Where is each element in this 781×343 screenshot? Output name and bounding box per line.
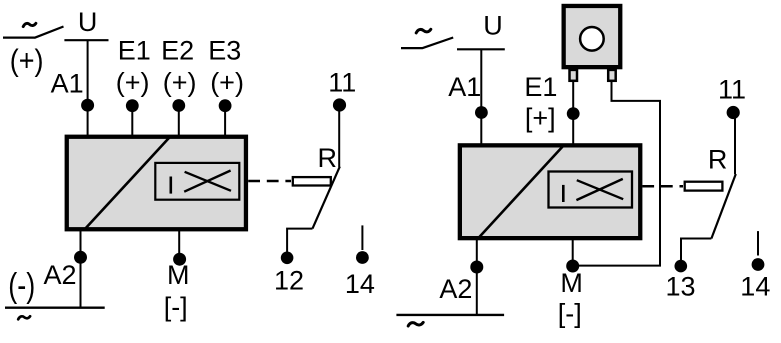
node 14 left	[356, 251, 369, 264]
U supply bar right	[457, 48, 505, 50]
wire U to A1 right	[480, 49, 482, 148]
node E2 left	[172, 99, 185, 112]
svg-text:11: 11	[328, 67, 356, 97]
dashed actuator link left	[248, 180, 291, 183]
AC tilde under rail right	[408, 322, 423, 326]
svg-text:A2: A2	[439, 274, 472, 304]
switch S1 left (blade)	[3, 27, 64, 38]
svg-text:U: U	[78, 7, 98, 37]
svg-text:E3: E3	[208, 36, 241, 66]
wire sensor pin to E1	[572, 82, 574, 148]
contact blade right	[711, 174, 735, 239]
node A1 right	[475, 106, 488, 119]
node E1 left	[126, 99, 139, 112]
svg-text:13: 13	[666, 271, 696, 301]
svg-text:(-): (-)	[8, 266, 35, 305]
svg-text:U: U	[483, 10, 503, 40]
AC tilde under rail left	[18, 316, 30, 319]
dashed actuator link right	[642, 185, 683, 188]
wire E1 to box	[131, 106, 133, 137]
neutral rail left	[5, 307, 105, 309]
diagonal separator right box	[478, 145, 564, 238]
node A2 right	[470, 261, 483, 274]
output stage box left (inner)	[155, 163, 239, 200]
wire E2 to box	[178, 106, 180, 138]
node M right	[566, 260, 579, 273]
svg-text:(+): (+)	[210, 68, 244, 98]
svg-text:A1: A1	[51, 69, 84, 99]
node A1 left	[81, 99, 94, 112]
U supply bar left	[64, 39, 108, 41]
relay module K1 (right box)	[460, 145, 640, 238]
svg-text:[-]: [-]	[164, 292, 188, 322]
AC source tilde symbol left	[23, 23, 36, 26]
wire 11 to pivot left	[338, 105, 340, 167]
relay coil R (resistor body) left	[293, 177, 331, 185]
wire blade to 13 right	[681, 239, 711, 261]
node E1 right	[567, 107, 580, 120]
contact blade left	[313, 167, 340, 229]
output stage box right (inner)	[549, 172, 633, 208]
stub wire 14 right	[757, 231, 759, 255]
svg-text:A1: A1	[448, 72, 481, 102]
svg-text:E1: E1	[524, 72, 557, 102]
node 14 right	[752, 258, 765, 271]
svg-text:(+): (+)	[163, 68, 197, 98]
node M left	[173, 253, 186, 266]
node 12 left	[281, 251, 294, 264]
AC source tilde symbol right	[416, 29, 431, 33]
crossed-contact symbol left	[184, 171, 231, 192]
svg-text:[-]: [-]	[558, 299, 582, 329]
svg-text:M: M	[167, 260, 190, 290]
crossed-contact symbol right	[576, 179, 623, 200]
wire M right	[572, 237, 574, 260]
node 11 right	[727, 106, 740, 119]
sensor pin right	[608, 70, 616, 81]
svg-text:(+): (+)	[116, 68, 150, 98]
wire E3 to box	[224, 106, 226, 137]
svg-text:(+): (+)	[10, 44, 44, 78]
svg-text:R: R	[318, 143, 338, 173]
node E3 left	[219, 99, 232, 112]
wire U to A1 left	[87, 40, 89, 137]
svg-text:11: 11	[718, 75, 746, 105]
wire A2 left	[80, 229, 82, 308]
current symbol I right	[562, 185, 565, 202]
sensor return wire to M	[573, 82, 660, 266]
svg-text:M: M	[560, 268, 583, 298]
sensor pin left	[570, 70, 578, 81]
neutral rail right	[396, 314, 504, 316]
node 11 left	[333, 98, 346, 111]
diagonal separator left box	[85, 136, 171, 229]
wire blade to 12 left	[287, 229, 312, 252]
switch S1 right (blade)	[401, 38, 453, 49]
svg-text:14: 14	[740, 272, 770, 302]
wire M left	[178, 229, 180, 253]
stub wire 14 left	[361, 225, 363, 250]
svg-text:12: 12	[274, 265, 304, 295]
node A2 left	[74, 251, 87, 264]
node 13 right	[675, 260, 688, 273]
svg-text:[+]: [+]	[525, 103, 556, 133]
wire 11 to pivot right	[734, 113, 736, 175]
svg-text:E2: E2	[161, 36, 194, 66]
relay coil R (resistor body) right	[685, 182, 723, 191]
wire A2 right	[476, 237, 478, 315]
relay module K1 (left box)	[67, 137, 246, 230]
current symbol I left	[170, 177, 173, 194]
svg-text:A2: A2	[44, 260, 77, 290]
svg-text:R: R	[708, 145, 728, 175]
sensor B1 (proximity switch)	[564, 6, 621, 67]
svg-text:14: 14	[345, 269, 375, 299]
svg-text:E1: E1	[118, 36, 151, 66]
